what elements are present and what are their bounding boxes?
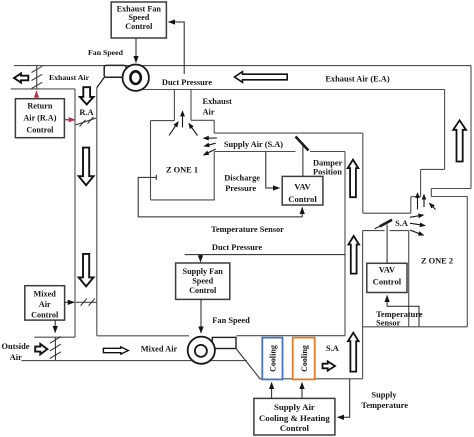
- zone arrow m3 into zone2 inlet up-left: [430, 203, 436, 209]
- control box X2 Return Air Control: [15, 99, 64, 138]
- svg-text:Outside: Outside: [2, 342, 30, 351]
- control wire C2 exhaust fan speed control to fan: [135, 39, 137, 63]
- svg-text:Cooling & Heating: Cooling & Heating: [259, 413, 330, 423]
- wire: zone2 inlet left vertical: [410, 197, 412, 214]
- svg-text:Sensor: Sensor: [376, 319, 400, 328]
- wire: zone1 supply branch bottom line right of damper: [310, 151, 345, 153]
- damper D2 return-air duct blade: [76, 117, 96, 127]
- svg-text:Speed: Speed: [128, 13, 149, 22]
- wire: zone1 top-right edge: [191, 119, 214, 121]
- wire: middle long horizontal line below top duct: [141, 89, 445, 91]
- zone arrow m1 into zone2 inlet up long: [417, 193, 419, 210]
- wire: mixed air duct bottom line: [22, 360, 247, 362]
- wire: zone2 inlet stair horizontal upper: [421, 168, 445, 170]
- control box X6 VAV Control zone2: [367, 263, 407, 292]
- damper D4 outside-air damper: [50, 337, 61, 361]
- flow arrow H6 hollow up arrow supply riser upper: [348, 160, 359, 198]
- wire: zone2 right wall: [466, 197, 468, 327]
- svg-text:Exhaust Air: Exhaust Air: [49, 73, 90, 82]
- wire: RA duct left wall: [74, 89, 76, 337]
- wire: EA return vertical right of zone2 inlet: [444, 90, 446, 170]
- wire: zone2 bottom line: [363, 326, 468, 328]
- svg-text:Air: Air: [203, 108, 215, 117]
- control wire C7 supply fan speed control to fan: [200, 299, 202, 333]
- wire: zone1 bottom: [151, 199, 215, 201]
- svg-text:Supply: Supply: [371, 391, 397, 400]
- svg-text:Return: Return: [27, 102, 52, 111]
- coil box cooling orange: [293, 338, 315, 380]
- flow arrow H8 hollow up arrow supply riser lower: [348, 333, 359, 372]
- control box X7 Supply Air Cooling and Heating Control: [254, 398, 335, 435]
- wire: right outer vertical from top duct: [470, 66, 472, 189]
- wire: zone2 VAV enclosure right wall: [408, 231, 410, 327]
- wire: zone1 right wall lower segment: [213, 152, 215, 200]
- supply fan SF housing rectangle: [212, 337, 236, 348]
- control wire C10b supply air control to orange coil: [301, 383, 303, 398]
- svg-text:VAV: VAV: [379, 265, 396, 275]
- svg-text:Temperature Sensor: Temperature Sensor: [211, 225, 284, 234]
- svg-text:Cooling: Cooling: [300, 345, 309, 372]
- coil box cooling blue: [262, 338, 282, 380]
- svg-text:Control: Control: [31, 311, 59, 320]
- wire: supply riser left wall: [344, 152, 346, 336]
- control wire C10a supply air control to blue coil: [271, 383, 273, 398]
- svg-text:Z ONE 1: Z ONE 1: [166, 166, 198, 175]
- svg-text:Duct Pressure: Duct Pressure: [162, 78, 212, 87]
- svg-text:Control: Control: [26, 126, 54, 135]
- zone arrow m2 into zone2 inlet up short: [423, 195, 425, 208]
- flow arrow H1 hollow left arrow exhaust outlet: [14, 73, 28, 82]
- damper D3 recirculation damper horizontal: [76, 298, 97, 305]
- svg-text:R.A: R.A: [79, 108, 93, 117]
- zone arrow a2 supply into zone1 middle: [204, 143, 216, 146]
- svg-text:Control: Control: [288, 194, 317, 204]
- control wire C6 duct pressure tap to supply fan speed control: [185, 255, 345, 262]
- control wire R1 return air control to exhaust damper (red): [36, 91, 38, 98]
- svg-text:Exhaust Fan: Exhaust Fan: [117, 4, 162, 13]
- svg-text:Cooling: Cooling: [269, 345, 278, 372]
- control wire C11 supply temperature feedback: [338, 379, 350, 418]
- wire: zone1 exhaust stack left wall: [173, 90, 175, 121]
- wire: zone1 supply branch bottom line left of damper: [214, 151, 295, 153]
- wire: zone2 notch lower horizontal: [431, 196, 467, 198]
- wire: zone1 top-left edge: [151, 120, 175, 122]
- flow arrow H7 hollow up arrow supply riser middle: [348, 236, 359, 274]
- svg-text:Fan Speed: Fan Speed: [212, 316, 250, 325]
- wire: zone1 exhaust stack right wall: [190, 90, 192, 121]
- svg-text:Air: Air: [39, 300, 51, 309]
- flow arrow H4 hollow down arrow RA duct upper: [79, 148, 94, 186]
- svg-text:Damper: Damper: [313, 159, 343, 168]
- wire: RA duct right wall: [96, 88, 98, 336]
- wire: supply duct bottom line after fan: [260, 378, 363, 380]
- svg-text:Fan Speed: Fan Speed: [88, 48, 124, 57]
- supply fan SF hub circle: [195, 345, 207, 357]
- svg-text:Control: Control: [189, 286, 217, 295]
- wire: zone2 runout bottom line left part: [363, 230, 385, 232]
- svg-text:Supply Fan: Supply Fan: [183, 267, 224, 276]
- svg-text:Control: Control: [373, 277, 402, 287]
- flow arrow H12 hollow right arrow SA: [323, 361, 336, 370]
- exhaust fan EF impeller circle: [123, 65, 149, 91]
- wire: zone1 supply branch top line: [214, 132, 363, 134]
- wire: supply riser right wall lower: [362, 231, 364, 379]
- svg-text:Control: Control: [280, 423, 310, 433]
- wire: zone2 notch vertical: [430, 189, 432, 197]
- svg-text:Mixed: Mixed: [34, 289, 57, 298]
- svg-text:Duct Pressure: Duct Pressure: [212, 243, 262, 252]
- supply fan SF impeller circle: [188, 337, 215, 364]
- zone arrow s3 SA spread right lower: [410, 230, 424, 235]
- zone arrow a1 supply into zone1 upper: [204, 137, 217, 139]
- flow arrow H2 long hollow left arrow in EA duct: [235, 72, 288, 83]
- control box X4 Supply Fan Speed Control: [176, 263, 230, 299]
- control wire C8 mixed air control to recirculation damper: [65, 301, 75, 303]
- damper D1 exhaust-air damper with hatches: [32, 66, 43, 89]
- svg-text:Air: Air: [10, 353, 22, 362]
- svg-text:S.A: S.A: [326, 344, 339, 353]
- svg-text:Exhaust Air (E.A): Exhaust Air (E.A): [325, 75, 390, 84]
- control wire C3 discharge pressure to VAV1: [266, 152, 280, 188]
- exhaust fan EF rotor zero mark: [130, 71, 140, 84]
- wire: zone2 upper-right notch horizontal: [431, 188, 471, 190]
- wire: zone1 right wall upper segment: [213, 120, 215, 133]
- wire: mixed air duct top line left segment: [97, 335, 189, 337]
- control wire C13 VAV2 to zone2 damper: [386, 225, 388, 264]
- control box X3 Mixed Air Control: [25, 286, 65, 320]
- zone arrow s1 SA spread right upper: [410, 215, 424, 217]
- control box X1 Exhaust Fan Speed Control: [111, 2, 166, 38]
- wire: zone1 left wall: [150, 121, 152, 200]
- svg-text:Temperature: Temperature: [361, 401, 408, 410]
- svg-text:Supply Air (S.A): Supply Air (S.A): [224, 140, 283, 149]
- flow arrow H11 hollow right arrow mixed air: [103, 347, 128, 354]
- control wire C12 zone2 temperature sensor to VAV2: [387, 296, 419, 327]
- wire: supply duct top line over cooling section: [237, 335, 346, 337]
- svg-text:Mixed Air: Mixed Air: [141, 345, 178, 354]
- svg-text:Discharge: Discharge: [224, 174, 260, 183]
- zone arrow e3 zone1 exhaust up-left: [189, 124, 198, 136]
- flow arrow H3 hollow down arrow RA top: [80, 87, 94, 104]
- control wire R2 return air control to RA damper (red): [65, 119, 75, 121]
- wire: zone2 inlet stair vertical: [420, 169, 422, 196]
- flow arrow H5 hollow down arrow RA duct lower: [79, 254, 94, 287]
- flow arrow H10 hollow right arrow outside air: [35, 344, 47, 354]
- svg-text:Air (R.A): Air (R.A): [23, 114, 56, 123]
- svg-text:Supply Air: Supply Air: [274, 402, 315, 412]
- wire: zone2 runout bottom line right part: [390, 230, 409, 232]
- svg-text:Z ONE 2: Z ONE 2: [421, 257, 453, 266]
- wire: zone2 inlet stair horizontal lower: [411, 196, 421, 198]
- zone arrow e1 zone1 exhaust up center: [182, 111, 184, 127]
- svg-text:Position: Position: [313, 168, 342, 177]
- damper B1 zone1 supply damper blade: [296, 137, 309, 151]
- control wire C5 zone1 temperature sensor loop to VAV1: [138, 177, 302, 217]
- control wire C4 VAV1 to zone1 damper: [302, 145, 304, 177]
- svg-text:VAV: VAV: [294, 181, 311, 191]
- wire: top exhaust duct upper line: [14, 65, 471, 67]
- svg-text:Pressure: Pressure: [225, 184, 256, 193]
- wire: zone2 runout top line: [363, 212, 411, 214]
- damper B2 zone2 supply damper blade: [375, 220, 393, 229]
- svg-text:S.A: S.A: [395, 219, 408, 228]
- zone arrow s2 SA spread right middle: [410, 223, 425, 225]
- flow arrow H9 hollow up arrow EA return right: [453, 120, 466, 161]
- wire: outside air duct top line: [34, 336, 75, 338]
- zone arrow a3 supply into zone1 lower: [204, 149, 216, 155]
- zone arrow e2 zone1 exhaust up-right: [169, 122, 178, 136]
- control wire C9 mixed air control to outside air damper: [54, 320, 56, 332]
- exhaust fan EF scroll diagonal: [97, 77, 105, 87]
- svg-text:Control: Control: [125, 22, 153, 31]
- supply fan SF scroll diagonal: [236, 349, 260, 380]
- sensor probe zone1 temperature sensor: [151, 175, 157, 180]
- control wire C1 duct pressure tap to exhaust fan speed control: [169, 22, 185, 74]
- wire: top duct lower line left segment: [11, 88, 75, 90]
- wire: supply riser right wall upper: [362, 133, 364, 213]
- control box X5 VAV Control zone1: [282, 176, 323, 205]
- exhaust fan EF housing rectangle: [104, 65, 126, 77]
- svg-text:Exhaust: Exhaust: [203, 97, 233, 106]
- svg-text:Speed: Speed: [192, 277, 213, 286]
